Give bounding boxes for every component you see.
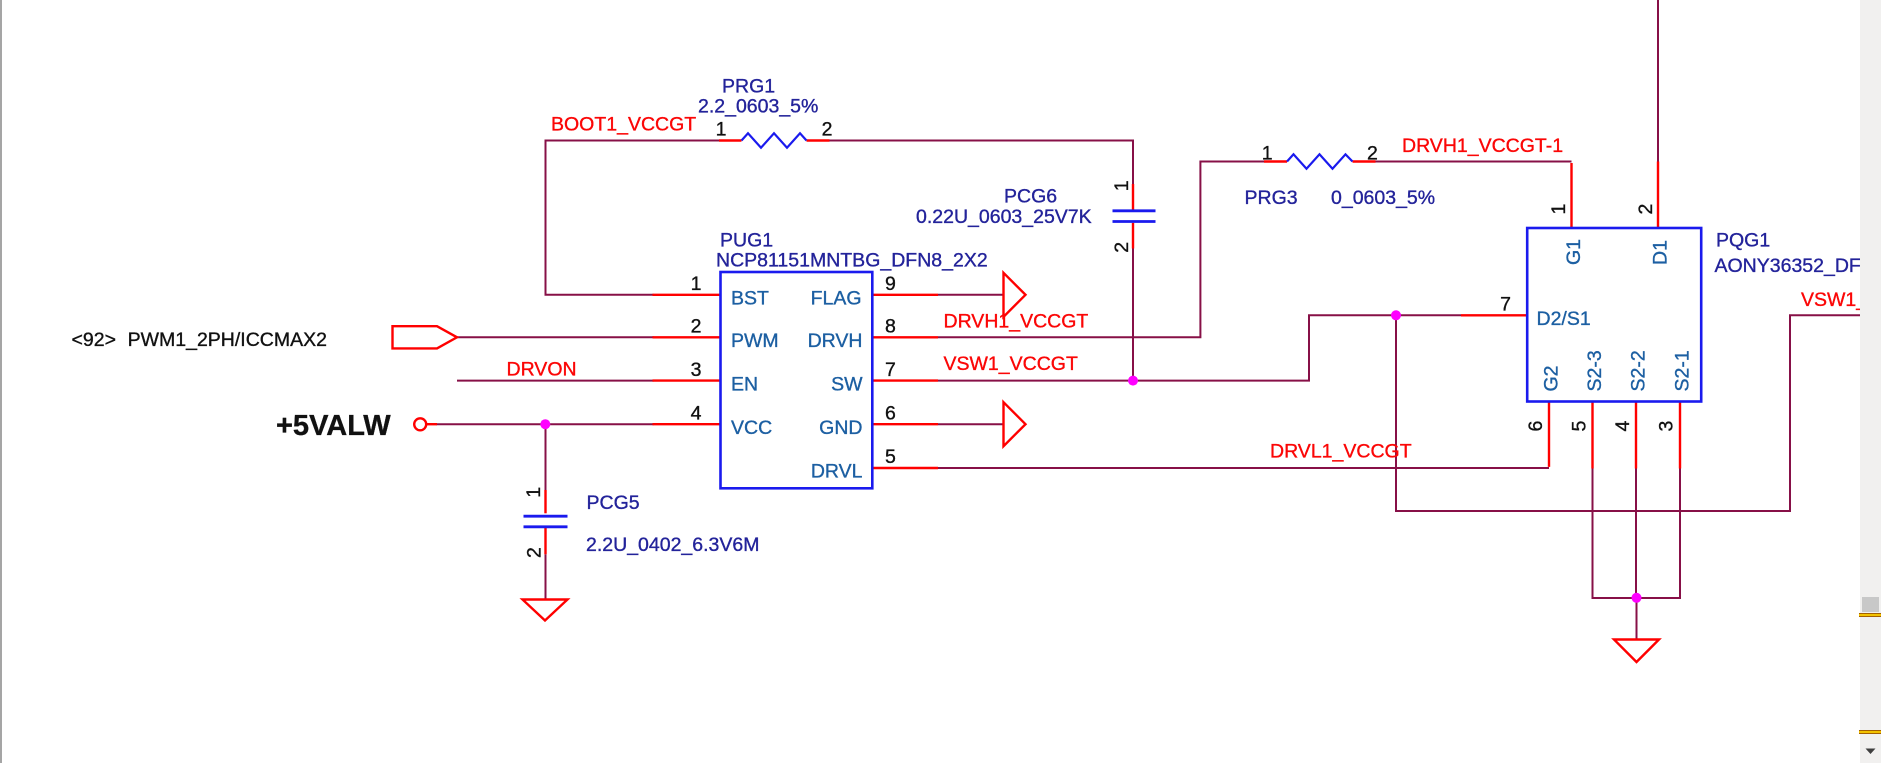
svg-text:1: 1 xyxy=(691,273,702,295)
svg-text:4: 4 xyxy=(691,402,702,424)
svg-text:7: 7 xyxy=(885,359,896,381)
svg-text:PRG3: PRG3 xyxy=(1245,187,1298,209)
svg-text:DRVON: DRVON xyxy=(507,358,577,380)
svg-text:DRVL: DRVL xyxy=(811,461,863,483)
svg-text:6: 6 xyxy=(885,402,896,424)
svg-text:1: 1 xyxy=(716,119,727,141)
svg-text:GND: GND xyxy=(819,417,862,439)
svg-text:DRVH1_VCCGT-1: DRVH1_VCCGT-1 xyxy=(1402,135,1563,157)
svg-text:PCG6: PCG6 xyxy=(1004,186,1057,208)
svg-text:VSW1_VCCGT: VSW1_VCCGT xyxy=(944,353,1078,375)
svg-text:DRVL1_VCCGT: DRVL1_VCCGT xyxy=(1270,441,1412,463)
svg-text:PWM1_2PH/ICCMAX2: PWM1_2PH/ICCMAX2 xyxy=(128,329,327,351)
svg-text:2: 2 xyxy=(822,119,833,141)
svg-text:3: 3 xyxy=(1656,421,1678,432)
svg-text:VCC: VCC xyxy=(731,417,772,439)
svg-text:PQG1: PQG1 xyxy=(1716,230,1770,252)
svg-text:2: 2 xyxy=(691,316,702,338)
svg-text:PCG5: PCG5 xyxy=(587,492,640,514)
svg-text:0_0603_5%: 0_0603_5% xyxy=(1331,187,1435,209)
svg-text:2: 2 xyxy=(1111,242,1133,253)
svg-text:1: 1 xyxy=(523,487,545,498)
svg-text:2.2U_0402_6.3V6M: 2.2U_0402_6.3V6M xyxy=(586,534,759,556)
svg-text:NCP81151MNTBG_DFN8_2X2: NCP81151MNTBG_DFN8_2X2 xyxy=(716,250,988,272)
svg-text:DRVH: DRVH xyxy=(808,330,863,352)
svg-text:S2-3: S2-3 xyxy=(1584,350,1606,391)
svg-text:DRVH1_VCCGT: DRVH1_VCCGT xyxy=(944,311,1089,333)
svg-text:7: 7 xyxy=(1500,293,1511,315)
svg-text:3: 3 xyxy=(691,359,702,381)
svg-text:2: 2 xyxy=(524,547,546,558)
svg-text:D2/S1: D2/S1 xyxy=(1537,308,1591,330)
svg-text:0.22U_0603_25V7K: 0.22U_0603_25V7K xyxy=(916,206,1092,228)
svg-text:+5VALW: +5VALW xyxy=(276,410,391,442)
svg-text:2: 2 xyxy=(1635,204,1657,215)
svg-text:4: 4 xyxy=(1612,421,1634,432)
svg-text:BST: BST xyxy=(731,288,769,310)
svg-text:1: 1 xyxy=(1548,204,1570,215)
svg-text:1: 1 xyxy=(1111,180,1133,191)
svg-text:SW: SW xyxy=(831,373,863,395)
svg-text:2: 2 xyxy=(1367,143,1378,165)
svg-text:BOOT1_VCCGT: BOOT1_VCCGT xyxy=(551,114,696,136)
svg-text:VSW1_VCCGT: VSW1_VCCGT xyxy=(1801,289,1860,311)
svg-text:<92>: <92> xyxy=(72,329,116,351)
svg-text:8: 8 xyxy=(885,316,896,338)
svg-text:6: 6 xyxy=(1525,421,1547,432)
svg-text:S2-1: S2-1 xyxy=(1672,350,1694,391)
svg-text:AONY36352_DFN8_5X6: AONY36352_DFN8_5X6 xyxy=(1715,255,1861,277)
svg-text:EN: EN xyxy=(731,373,758,395)
svg-text:PRG1: PRG1 xyxy=(722,76,775,98)
svg-text:G2: G2 xyxy=(1541,365,1563,391)
svg-text:9: 9 xyxy=(885,273,896,295)
svg-text:FLAG: FLAG xyxy=(811,288,862,310)
svg-text:G1: G1 xyxy=(1563,239,1585,265)
svg-text:2.2_0603_5%: 2.2_0603_5% xyxy=(698,96,818,118)
svg-text:S2-2: S2-2 xyxy=(1628,350,1650,391)
svg-text:D1: D1 xyxy=(1650,240,1672,265)
svg-text:5: 5 xyxy=(885,446,896,468)
svg-text:5: 5 xyxy=(1569,421,1591,432)
svg-text:1: 1 xyxy=(1262,143,1273,165)
svg-text:PUG1: PUG1 xyxy=(720,230,773,252)
svg-text:PWM: PWM xyxy=(731,330,779,352)
